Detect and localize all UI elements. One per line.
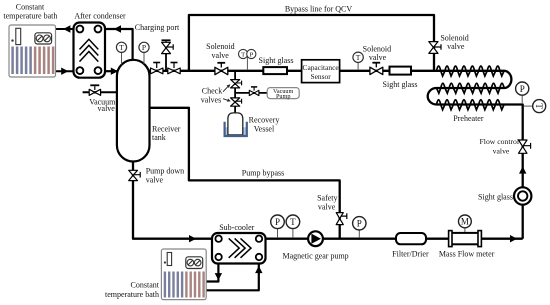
- pump down valve: [129, 170, 141, 180]
- receiver tank vessel: [117, 60, 150, 162]
- capacitance sensor: [302, 60, 340, 83]
- wire: vacuum valve branch: [83, 91, 117, 93]
- gauge P at preheater outlet: [516, 82, 529, 104]
- wire: receiver bottom via pump-down valve and bottom main line: [133, 161, 523, 239]
- gauge P after safety valve: [353, 217, 366, 238]
- svg-text:temperature bath: temperature bath: [105, 290, 159, 299]
- vacuum pump isolation valve: [249, 87, 259, 96]
- flow control valve: [519, 140, 531, 153]
- wire: bath to after-condenser bottom: [56, 68, 74, 75]
- svg-text:Sight glass: Sight glass: [383, 80, 418, 89]
- svg-text:T: T: [534, 103, 544, 109]
- label: recovery vessel: [249, 115, 280, 133]
- recovery vessel flask: [228, 113, 243, 135]
- gauge T at sub-cooler outlet: [286, 215, 300, 238]
- preheater coil row 2: [436, 83, 504, 93]
- svg-text:valve: valve: [447, 42, 465, 51]
- wire: bath to after-condenser top: [56, 25, 74, 32]
- gauge T at preheater outlet (rotated): [524, 100, 546, 113]
- check valve 2: [231, 98, 242, 106]
- svg-text:T: T: [290, 217, 296, 227]
- solenoid valve 3 on bypass: [429, 42, 441, 54]
- svg-text:valve: valve: [493, 146, 510, 155]
- svg-text:Sensor: Sensor: [311, 72, 332, 81]
- label: check valves: [201, 84, 231, 104]
- label: flow control valve: [480, 137, 520, 156]
- svg-text:Pump: Pump: [276, 93, 290, 100]
- svg-text:Vessel: Vessel: [254, 125, 275, 134]
- gauges T P pair on main line: [239, 49, 256, 70]
- gauge T on receiver: [116, 42, 126, 64]
- label: safety valve: [317, 194, 337, 212]
- svg-text:P: P: [142, 43, 146, 52]
- label: constant temperature bath top: [3, 3, 57, 21]
- gauge P at sub-cooler outlet: [271, 215, 285, 238]
- svg-text:T: T: [356, 53, 361, 62]
- solenoid valve 1: [215, 63, 228, 75]
- sight glass 1: [263, 67, 287, 74]
- constant temperature bath (bottom): [161, 249, 206, 300]
- svg-text:Flow control: Flow control: [480, 137, 520, 146]
- svg-text:Sight glass: Sight glass: [259, 56, 294, 65]
- sight glass 2: [390, 67, 412, 75]
- wire: pump bypass from receiver outlet through safety valve: [150, 108, 340, 239]
- wire: after-condenser to receiver top (vapour line): [105, 25, 133, 61]
- svg-text:Check: Check: [202, 87, 222, 96]
- svg-text:After condenser: After condenser: [74, 12, 126, 21]
- gauge P on receiver: [139, 42, 149, 64]
- gauge T before solenoid valve 2: [353, 52, 363, 70]
- sight glass 3 (double circle): [514, 187, 531, 204]
- svg-text:Sight glass: Sight glass: [478, 193, 513, 202]
- solenoid valve 2: [370, 63, 383, 75]
- label: pump down valve: [146, 167, 184, 185]
- charging port valve: [162, 40, 174, 53]
- svg-text:Magnetic gear pump: Magnetic gear pump: [282, 252, 348, 261]
- svg-text:P: P: [357, 219, 362, 229]
- label: constant temperature bath bottom: [105, 281, 160, 299]
- manifold valve 1: [151, 63, 163, 74]
- check valve 1: [231, 80, 242, 88]
- manifold valve 2: [168, 63, 180, 74]
- wire: main line from receiver through valves to preheater and down right side: [149, 71, 523, 239]
- svg-text:P: P: [520, 84, 525, 94]
- svg-text:valve: valve: [318, 203, 336, 212]
- svg-text:valves: valves: [201, 96, 221, 105]
- after condenser plate heat exchanger: [74, 23, 106, 78]
- svg-text:Charging port: Charging port: [135, 23, 180, 32]
- svg-text:P: P: [275, 217, 280, 227]
- svg-text:Receiver: Receiver: [152, 125, 181, 134]
- wire: after-condenser to receiver left: [105, 68, 119, 75]
- svg-text:Constant: Constant: [16, 3, 45, 12]
- wire: sub-cooler left bottom port to bath: [206, 262, 222, 282]
- wire: bath to sub-cooler right bottom port: [206, 262, 262, 290]
- wire: charging port valve drop: [165, 52, 167, 71]
- wire: arrow before bottom-right corner: [510, 235, 517, 242]
- wire: bypass line for QCV: [189, 15, 434, 71]
- svg-text:valve: valve: [212, 51, 230, 60]
- svg-text:M: M: [461, 217, 469, 227]
- safety valve: [336, 213, 347, 225]
- svg-text:Recovery: Recovery: [249, 115, 280, 124]
- svg-text:valve: valve: [146, 175, 164, 184]
- wire: arrow into sub-cooler: [189, 235, 196, 242]
- label: receiver tank: [152, 125, 181, 143]
- recovery vessel beaker water: [225, 127, 246, 136]
- mass flow meter: [449, 215, 482, 247]
- svg-text:temperature bath: temperature bath: [3, 11, 57, 20]
- wire: check valve branch and vacuum pump line: [235, 71, 267, 113]
- svg-text:tank: tank: [152, 133, 166, 142]
- label: solenoid valve 1: [206, 42, 234, 60]
- vacuum valve: [89, 85, 100, 95]
- label: solenoid valve 3: [440, 34, 468, 51]
- magnetic gear pump: [308, 231, 323, 246]
- vacuum pump box: [267, 88, 299, 101]
- svg-text:T: T: [119, 43, 124, 52]
- svg-text:P: P: [250, 51, 254, 58]
- svg-text:Preheater: Preheater: [453, 114, 484, 123]
- sub-cooler plate heat exchanger: [212, 233, 266, 264]
- preheater coil row 3: [437, 100, 505, 110]
- svg-text:Solenoid: Solenoid: [206, 42, 234, 51]
- svg-text:Sub-cooler: Sub-cooler: [219, 223, 254, 232]
- wire: arrow up on right riser: [519, 166, 526, 173]
- svg-text:Mass Flow meter: Mass Flow meter: [439, 250, 495, 259]
- svg-text:Constant: Constant: [131, 281, 160, 290]
- svg-text:T: T: [241, 51, 245, 58]
- svg-text:Safety: Safety: [317, 194, 337, 203]
- svg-text:Capacitance: Capacitance: [303, 63, 340, 72]
- recovery vessel beaker: [225, 122, 247, 136]
- preheater coil row 1: [437, 66, 505, 76]
- svg-text:Pump bypass: Pump bypass: [242, 168, 284, 177]
- svg-text:Solenoid: Solenoid: [363, 44, 391, 53]
- svg-text:valve: valve: [98, 104, 116, 113]
- svg-text:Filter/Drier: Filter/Drier: [392, 250, 429, 259]
- label: solenoid valve 2: [363, 44, 391, 62]
- filter/drier: [396, 233, 426, 244]
- constant temperature bath (top): [9, 25, 56, 77]
- label: vacuum valve: [89, 98, 116, 113]
- svg-text:Bypass line for QCV: Bypass line for QCV: [285, 4, 353, 13]
- svg-text:valve: valve: [369, 53, 387, 62]
